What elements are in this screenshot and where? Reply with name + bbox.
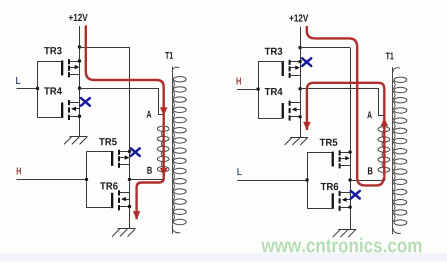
node L junction': [305, 178, 308, 181]
node B junction: [128, 178, 131, 181]
transformer T1 label: [165, 52, 173, 59]
transistor TR3': [282, 60, 302, 78]
ground below TR6: [112, 229, 136, 237]
label input H (top)': [237, 78, 241, 85]
transformer T1 secondary winding: [172, 66, 186, 233]
wire +12V rail': [300, 27, 302, 137]
node TR3'/TR4' midpoint: [298, 87, 301, 90]
transistor TR6': [332, 191, 352, 211]
wire +12V rail: [79, 26, 81, 136]
red arrow into ground (TR6): [133, 211, 141, 219]
bottom band: [0, 253, 447, 261]
red current path: primary B' to A' through TR4' to ground: [307, 83, 384, 180]
label input L (bottom)': [237, 168, 241, 175]
wire TR5/TR6 rail: [129, 47, 131, 229]
ground below TR6': [333, 230, 357, 238]
label TR5: [99, 138, 117, 145]
wire +12V branch to TR5 rail': [300, 47, 350, 49]
wire gate bracket TR5'/TR6': [307, 152, 332, 208]
wire to node A: [80, 89, 164, 115]
red arrow into ground (TR4'): [303, 122, 311, 130]
wire input L: [17, 88, 38, 90]
transistor TR4': [282, 101, 302, 121]
transistor TR5: [111, 150, 131, 168]
watermark www.cntronics.com: [261, 238, 421, 253]
wire input H: [17, 179, 87, 181]
transformer T1' secondary winding: [393, 67, 407, 234]
node B junction': [348, 178, 351, 181]
red arrow at node A: [160, 107, 168, 115]
wire input L': [237, 180, 307, 182]
wire gate bracket TR3/TR4: [38, 61, 62, 118]
red arrow at node A' (up): [381, 118, 389, 126]
ground below TR4: [64, 137, 88, 145]
red current path: +12V through TR3 to A, primary, B through TR6 to ground: [86, 25, 164, 219]
label TR3': [265, 48, 283, 55]
node H junction: [85, 178, 88, 181]
transistor TR4: [61, 100, 81, 120]
label +12V': [289, 14, 308, 21]
node B label: [147, 167, 152, 174]
node A' label: [367, 111, 372, 118]
wire to node B: [130, 179, 165, 181]
label TR6': [321, 183, 339, 190]
label TR4: [44, 87, 62, 94]
wire +12V branch to TR5 rail: [80, 47, 130, 49]
node +12V branch junction': [298, 46, 301, 49]
label +12V: [69, 14, 88, 21]
label input L (top): [16, 77, 21, 84]
blue X: TR4 off: [81, 98, 90, 106]
ground below TR4': [285, 138, 309, 146]
node +12V branch junction: [78, 45, 81, 48]
wire input H': [237, 89, 258, 91]
node B' label: [368, 167, 373, 174]
red arrow at node B: [160, 168, 168, 176]
wire gate bracket TR3'/TR4': [258, 62, 282, 119]
node A label: [147, 111, 152, 118]
label TR6: [100, 182, 118, 189]
transistor TR3: [61, 59, 81, 77]
blue X: TR6' off: [351, 191, 360, 199]
label TR3: [44, 47, 62, 54]
label input H (bottom): [17, 167, 21, 174]
label TR5': [320, 139, 338, 146]
transformer T1' label: [386, 53, 394, 60]
node H junction': [256, 87, 259, 90]
node TR3/TR4 midpoint: [78, 87, 81, 90]
label TR4': [265, 88, 283, 95]
wire to node B': [350, 180, 385, 182]
wire to node A': [300, 89, 384, 116]
transistor TR6: [111, 190, 131, 210]
blue X: TR3' off: [302, 58, 311, 66]
transformer T1 primary winding: [157, 115, 169, 180]
transistor TR5': [332, 150, 352, 168]
node L junction: [36, 87, 39, 90]
wire TR5/TR6 rail': [350, 48, 352, 230]
red current path: +12V through TR5' to B', primary: [307, 26, 384, 185]
transformer T1' primary winding: [378, 115, 390, 180]
wire gate bracket TR5/TR6: [87, 152, 112, 208]
blue X: TR5 off: [131, 148, 140, 156]
